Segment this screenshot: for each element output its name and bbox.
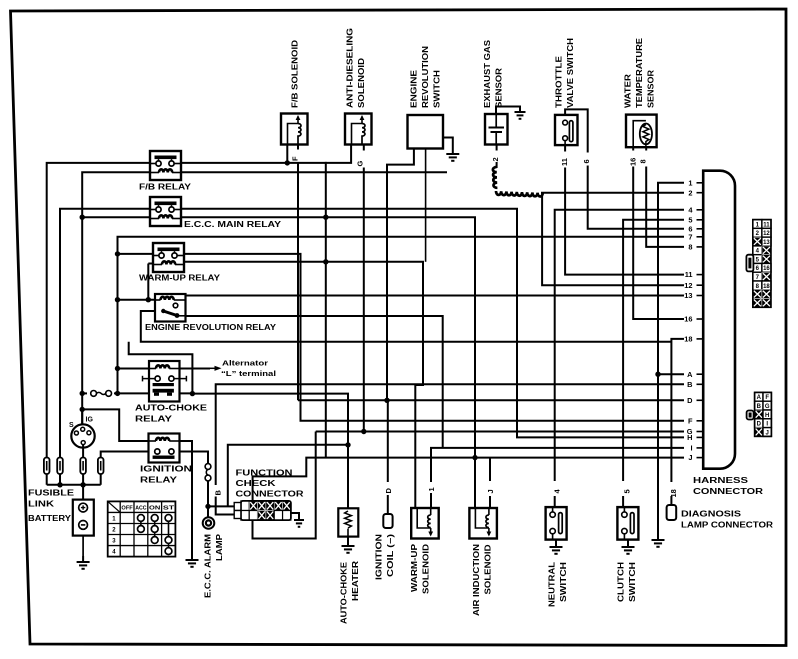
harness pin I [697, 447, 704, 449]
svg-text:THROTTLE: THROTTLE [555, 55, 564, 108]
harness pin 6 [697, 228, 704, 230]
relay F/B RELAY [150, 151, 181, 180]
svg-text:AIR INDUCTION: AIR INDUCTION [472, 544, 481, 616]
box EXHAUST GAS SENSOR [485, 114, 508, 145]
wire: A line stub from ground riser to pin A [659, 373, 684, 375]
svg-text:WARM-UP: WARM-UP [410, 543, 419, 592]
svg-text:DIAGNOSIS: DIAGNOSIS [681, 510, 742, 519]
svg-text:VALVE SWITCH: VALVE SWITCH [566, 38, 575, 108]
fusible link 2 [57, 458, 63, 475]
relay AUTO-CHOKE RELAY [143, 361, 187, 402]
svg-text:D: D [757, 422, 762, 428]
junction V3/fusible link line [80, 391, 85, 396]
svg-text:B: B [757, 404, 762, 410]
svg-text:HARNESS: HARNESS [693, 476, 749, 485]
svg-text:AUTO-CHOKE: AUTO-CHOKE [340, 561, 349, 624]
wire: F/B relay coil out to right [181, 171, 447, 173]
svg-text:D: D [384, 488, 393, 494]
solenoid F/B SOLENOID [281, 114, 308, 145]
junction V5/ERR coil [115, 297, 120, 302]
junction V326/ECC coil line [323, 215, 328, 220]
wire: fuse4 to ignition relay contact [101, 452, 149, 458]
solenoid ANTI-DIESELING SOLENOID [345, 114, 372, 145]
inline fusible link symbol [91, 391, 97, 397]
svg-text:11: 11 [763, 222, 770, 228]
wire: F solenoid coil drop to D line [297, 144, 299, 149]
svg-text:11: 11 [560, 158, 569, 166]
wire: left feed V3 x=82.2 to F/B relay coil [82, 172, 150, 424]
wire: pin 2 line [541, 192, 684, 194]
shielded cable coil (horizontal part) [496, 191, 543, 197]
fusible link 3 [80, 458, 86, 475]
svg-text:H: H [687, 433, 692, 442]
svg-text:A: A [757, 395, 762, 401]
harness pin 18 [697, 338, 704, 340]
relay ENGINE REVOLUTION RELAY [155, 294, 186, 322]
svg-text:12: 12 [684, 281, 692, 290]
svg-text:IGNITION: IGNITION [375, 534, 384, 580]
ground below neutral switch [555, 541, 557, 547]
wire: ERR arm left drop -> long line to 18 riser [141, 311, 672, 342]
wire: warm-up relay contact out -> F pin riser [184, 254, 684, 421]
svg-text:18: 18 [763, 284, 770, 290]
svg-text:CHECK: CHECK [236, 479, 276, 488]
svg-text:B: B [687, 380, 692, 389]
wire: warm-up coil left drop to ERR coil line [147, 264, 149, 300]
svg-text:J: J [486, 489, 495, 493]
harness pin J [697, 457, 704, 459]
harness pin 11 [697, 274, 704, 276]
svg-text:5: 5 [622, 489, 631, 493]
wire: V326 below G to J line [325, 432, 327, 458]
svg-text:G: G [355, 161, 364, 167]
svg-text:F: F [688, 416, 693, 425]
svg-text:13: 13 [684, 291, 692, 300]
svg-text:12: 12 [763, 231, 770, 237]
wire: anti-dieseling solenoid left branch [325, 145, 351, 163]
svg-text:F/B SOLENOID: F/B SOLENOID [291, 40, 300, 108]
ground below auto-choke heater [347, 540, 349, 546]
box ENGINE REVOLUTION SWITCH [408, 115, 444, 149]
junction V326/warm-up coil line [323, 259, 328, 264]
svg-text:E.C.C. MAIN RELAY: E.C.C. MAIN RELAY [184, 220, 282, 229]
junction auto-choke relay feet [190, 391, 195, 396]
ground at exhaust gas sensor [519, 110, 521, 112]
svg-text:FUSIBLE: FUSIBLE [28, 489, 75, 498]
svg-text:D: D [687, 396, 693, 405]
harness connector body [703, 171, 735, 469]
svg-text:13: 13 [763, 240, 770, 246]
wire: lamp line right to function check connector [208, 505, 234, 507]
svg-text:LAMP CONNECTOR: LAMP CONNECTOR [681, 521, 773, 530]
svg-text:CONNECTOR: CONNECTOR [693, 487, 763, 496]
junction warm-up drop/ERR coil [146, 297, 151, 302]
ground below clutch switch [627, 541, 629, 547]
svg-text:2: 2 [688, 188, 692, 197]
wire: ign coil D riser below dot [387, 400, 389, 482]
wire: G line left portion [316, 431, 326, 433]
svg-text:SWITCH: SWITCH [433, 70, 442, 108]
svg-text:CONNECTOR: CONNECTOR [236, 490, 304, 499]
wire: F/B solenoid left branch + F pin drop [286, 144, 288, 163]
svg-text:BATTERY: BATTERY [28, 514, 72, 523]
resistor AUTO-CHOKE HEATER [338, 508, 358, 536]
svg-text:WARM-UP RELAY: WARM-UP RELAY [139, 274, 221, 283]
wire: auto-choke relay coil line w/ arrow annotation [118, 368, 150, 370]
harness pin H [697, 436, 704, 438]
wire: TVS pin 11 drop [564, 145, 566, 151]
svg-text:16: 16 [763, 266, 770, 272]
wire: air induction solenoid J drop [489, 458, 491, 481]
svg-text:AUTO-CHOKE: AUTO-CHOKE [135, 404, 208, 413]
svg-text:5: 5 [688, 215, 692, 224]
svg-text:F: F [765, 395, 769, 401]
wire: ECC main relay contact out -> H pin riser [182, 209, 684, 438]
wire: 444.8 line corner [228, 445, 348, 507]
svg-text:ENGINE: ENGINE [410, 69, 419, 108]
pin grid connector (letters) [747, 392, 772, 436]
svg-text:IG: IG [86, 417, 94, 424]
wire: ECC main relay coil line from V3 [82, 216, 150, 218]
svg-text:NEUTRAL: NEUTRAL [548, 562, 557, 607]
svg-text:CLUTCH: CLUTCH [617, 562, 626, 602]
svg-text:“L” terminal: “L” terminal [221, 369, 276, 378]
wire: F/B relay contact out to dot and down [181, 163, 684, 432]
connector DIAGNOSIS LAMP CONNECTOR [667, 505, 677, 520]
svg-text:EXHAUST GAS: EXHAUST GAS [483, 39, 492, 108]
harness pin F [697, 420, 704, 422]
wire: I line from warm-up solenoid 1 wire [431, 448, 684, 482]
svg-text:16: 16 [628, 158, 637, 166]
svg-text:I: I [690, 444, 692, 453]
svg-text:7: 7 [688, 232, 692, 241]
svg-text:6: 6 [582, 159, 591, 163]
box THROTTLE VALVE SWITCH [555, 115, 578, 145]
junction heater riser / 444.9 line [345, 442, 350, 447]
inline connector circles [205, 464, 211, 470]
harness pin 2 [697, 192, 704, 194]
harness pin 5 [697, 219, 704, 221]
harness pin 7 [697, 236, 704, 238]
harness pin B [697, 383, 704, 385]
ground below harness riser [657, 534, 659, 540]
harness pin 8 [697, 246, 704, 248]
wire: ERR switch top out -> pin 13 [186, 295, 685, 297]
junction ign coil riser / D line [384, 398, 389, 403]
wire: pin 18 line + diagnosis drop [671, 339, 684, 482]
wire: WTS 8 drop [645, 147, 647, 150]
svg-text:ANTI-DIESELING: ANTI-DIESELING [346, 28, 355, 108]
svg-text:LINK: LINK [28, 500, 54, 509]
harness pin 1 [697, 182, 704, 184]
pin grid connector (numbers) [746, 220, 771, 308]
svg-text:OFF: OFF [121, 505, 132, 511]
junction V5/auto-choke coil [115, 366, 120, 371]
svg-text:SOLENOID: SOLENOID [357, 58, 366, 108]
solenoid WARM-UP SOLENOID [411, 508, 439, 539]
svg-text:G: G [765, 404, 770, 410]
junction G line/anti-dieseling drop [361, 429, 366, 434]
svg-text:J: J [688, 453, 692, 462]
wire: auto-choke relay B line [216, 384, 684, 485]
svg-text:SOLENOID: SOLENOID [422, 544, 431, 594]
svg-text:8: 8 [688, 243, 692, 252]
ground right of function check connector [298, 518, 300, 520]
ignition switch [71, 409, 94, 457]
fusible link 1 [44, 458, 50, 475]
wire: EGS pin 2 w/ shielded coil [496, 144, 498, 150]
wire: lamp drop continue [207, 481, 209, 518]
ground below ignition relay [191, 554, 193, 560]
svg-text:ON: ON [149, 505, 161, 511]
fusible link 4 [98, 458, 104, 475]
svg-text:LAMP: LAMP [215, 533, 224, 561]
wire: ground riser V658 (pins 1/A) [658, 183, 684, 534]
solenoid AIR INDUCTION SOLENOID [469, 508, 497, 539]
svg-text:16: 16 [684, 315, 692, 324]
svg-text:F/B RELAY: F/B RELAY [139, 183, 192, 192]
svg-text:RELAY: RELAY [135, 415, 173, 424]
harness pin G [697, 431, 704, 433]
junction V5/feet line [115, 391, 120, 396]
svg-text:2: 2 [491, 157, 500, 161]
junction lamp line [205, 504, 210, 509]
junction F solenoid/contact line [285, 160, 290, 165]
FCC left stub cells [234, 503, 241, 511]
svg-text:RELAY: RELAY [140, 476, 178, 485]
ground at engine revolution switch [452, 148, 454, 154]
svg-text:REVOLUTION: REVOLUTION [421, 46, 430, 108]
switch NEUTRAL SWITCH [546, 507, 567, 539]
svg-text:H: H [765, 413, 769, 419]
key position table [108, 501, 176, 556]
svg-text:SWITCH: SWITCH [559, 562, 568, 602]
svg-text:1: 1 [427, 487, 436, 491]
wire: warm-up relay contact line [118, 253, 154, 255]
harness pin 12 [697, 284, 704, 286]
wire: ERS middle wire down to warm-up coil corner [425, 149, 427, 262]
svg-text:18: 18 [684, 335, 692, 344]
svg-text:Alternator: Alternator [222, 359, 268, 368]
junction V5/warm-up contact [115, 251, 120, 256]
harness pin 16 [697, 318, 704, 320]
connector IGNITION COIL [383, 514, 392, 528]
svg-text:SENSOR: SENSOR [647, 70, 656, 108]
svg-text:SWITCH: SWITCH [628, 562, 637, 602]
wire: fusible link / auto-choke feet line [82, 392, 87, 394]
box WATER TEMPERATURE SENSOR [626, 115, 657, 148]
harness pin 13 [697, 295, 704, 297]
junction J line/air solenoid riser [472, 455, 477, 460]
svg-text:SOLENOID: SOLENOID [484, 544, 493, 594]
junction A line/ground riser [655, 372, 660, 377]
svg-text:F: F [290, 156, 299, 161]
wire: pin 5 line + clutch switch drop [623, 220, 684, 481]
wire: ignition relay coil right -> drop to ground [180, 441, 193, 554]
E.C.C. alarm lamp symbol [203, 517, 215, 529]
svg-text:TEMPERATURE: TEMPERATURE [635, 37, 644, 108]
shielded cable coil (vertical part) [493, 167, 498, 188]
FCC right ground [291, 513, 299, 518]
wire: alternator arrow [210, 367, 219, 369]
wire: ERS left wire -> D dot [387, 149, 414, 401]
svg-text:WATER: WATER [624, 74, 633, 108]
harness pin A [697, 373, 704, 375]
battery [73, 485, 94, 556]
wire: pin 4 line + neutral switch drop [555, 210, 684, 481]
wire: ECC coil line right -> air induction solenoid riser [150, 217, 475, 508]
svg-text:COIL (−): COIL (−) [386, 534, 395, 577]
svg-text:FUNCTION: FUNCTION [236, 469, 293, 478]
wire: warm-up relay coil out -> warm-up solenoid [148, 263, 184, 265]
wire: feet line to auto-choke heater riser [192, 394, 348, 509]
svg-text:S: S [69, 422, 74, 429]
wire: left feed V2 x=60 to ECC main relay contact [60, 209, 150, 458]
svg-text:IGNITION: IGNITION [140, 465, 192, 474]
wire: ERR coil line [118, 299, 156, 301]
switch CLUTCH SWITCH [617, 507, 638, 539]
wire: EGS top to ground [496, 107, 520, 115]
relay WARM-UP RELAY [153, 243, 184, 272]
wire: WTS 16 drop [632, 147, 634, 150]
wire: ERS ground [443, 138, 453, 149]
wire: ignition relay contact right -> lamp drop [180, 452, 209, 464]
svg-text:18: 18 [669, 489, 678, 497]
wire: J line + staircase to FCC [253, 458, 684, 501]
svg-text:B: B [214, 490, 223, 496]
junction V3/IG line [80, 407, 85, 412]
wire: G-line left drop to FCC staircase [253, 432, 316, 539]
junction V3/ECC coil [80, 215, 85, 220]
wire: EGS shield drop -> pin 12 [542, 193, 684, 286]
relay IGNITION RELAY [149, 434, 180, 463]
battery bus [46, 474, 48, 485]
wire: V5 x=117.5 pin7 bus [118, 237, 685, 393]
wire: ERR arm bottom out -> riser to I line [186, 316, 443, 448]
svg-text:J: J [766, 430, 769, 436]
svg-text:SENSOR: SENSOR [495, 68, 504, 108]
svg-text:ST: ST [163, 505, 176, 511]
wire: left feed V1 x=46.7 to F/B relay contact [47, 163, 150, 458]
svg-text:1: 1 [688, 178, 692, 187]
wire: TVS 6 wire over top [565, 109, 588, 152]
harness pin 4 [697, 209, 704, 211]
svg-text:8: 8 [639, 159, 648, 163]
svg-text:A: A [687, 370, 693, 379]
svg-text:ENGINE REVOLUTION RELAY: ENGINE REVOLUTION RELAY [145, 323, 277, 332]
ground below battery [82, 556, 84, 562]
wire: 341.8 staircase down to auto-choke feet line [129, 342, 193, 394]
svg-text:HEATER: HEATER [351, 561, 360, 601]
svg-text:11: 11 [685, 270, 693, 279]
relay E.C.C. MAIN RELAY [150, 197, 181, 226]
wire: anti-dieseling G drop [363, 145, 365, 151]
svg-text:ACC: ACC [135, 505, 147, 511]
harness pin D [697, 399, 704, 401]
svg-text:E.C.C. ALARM: E.C.C. ALARM [204, 534, 213, 598]
wire: IG terminal line to ignition relay coil [82, 409, 148, 441]
